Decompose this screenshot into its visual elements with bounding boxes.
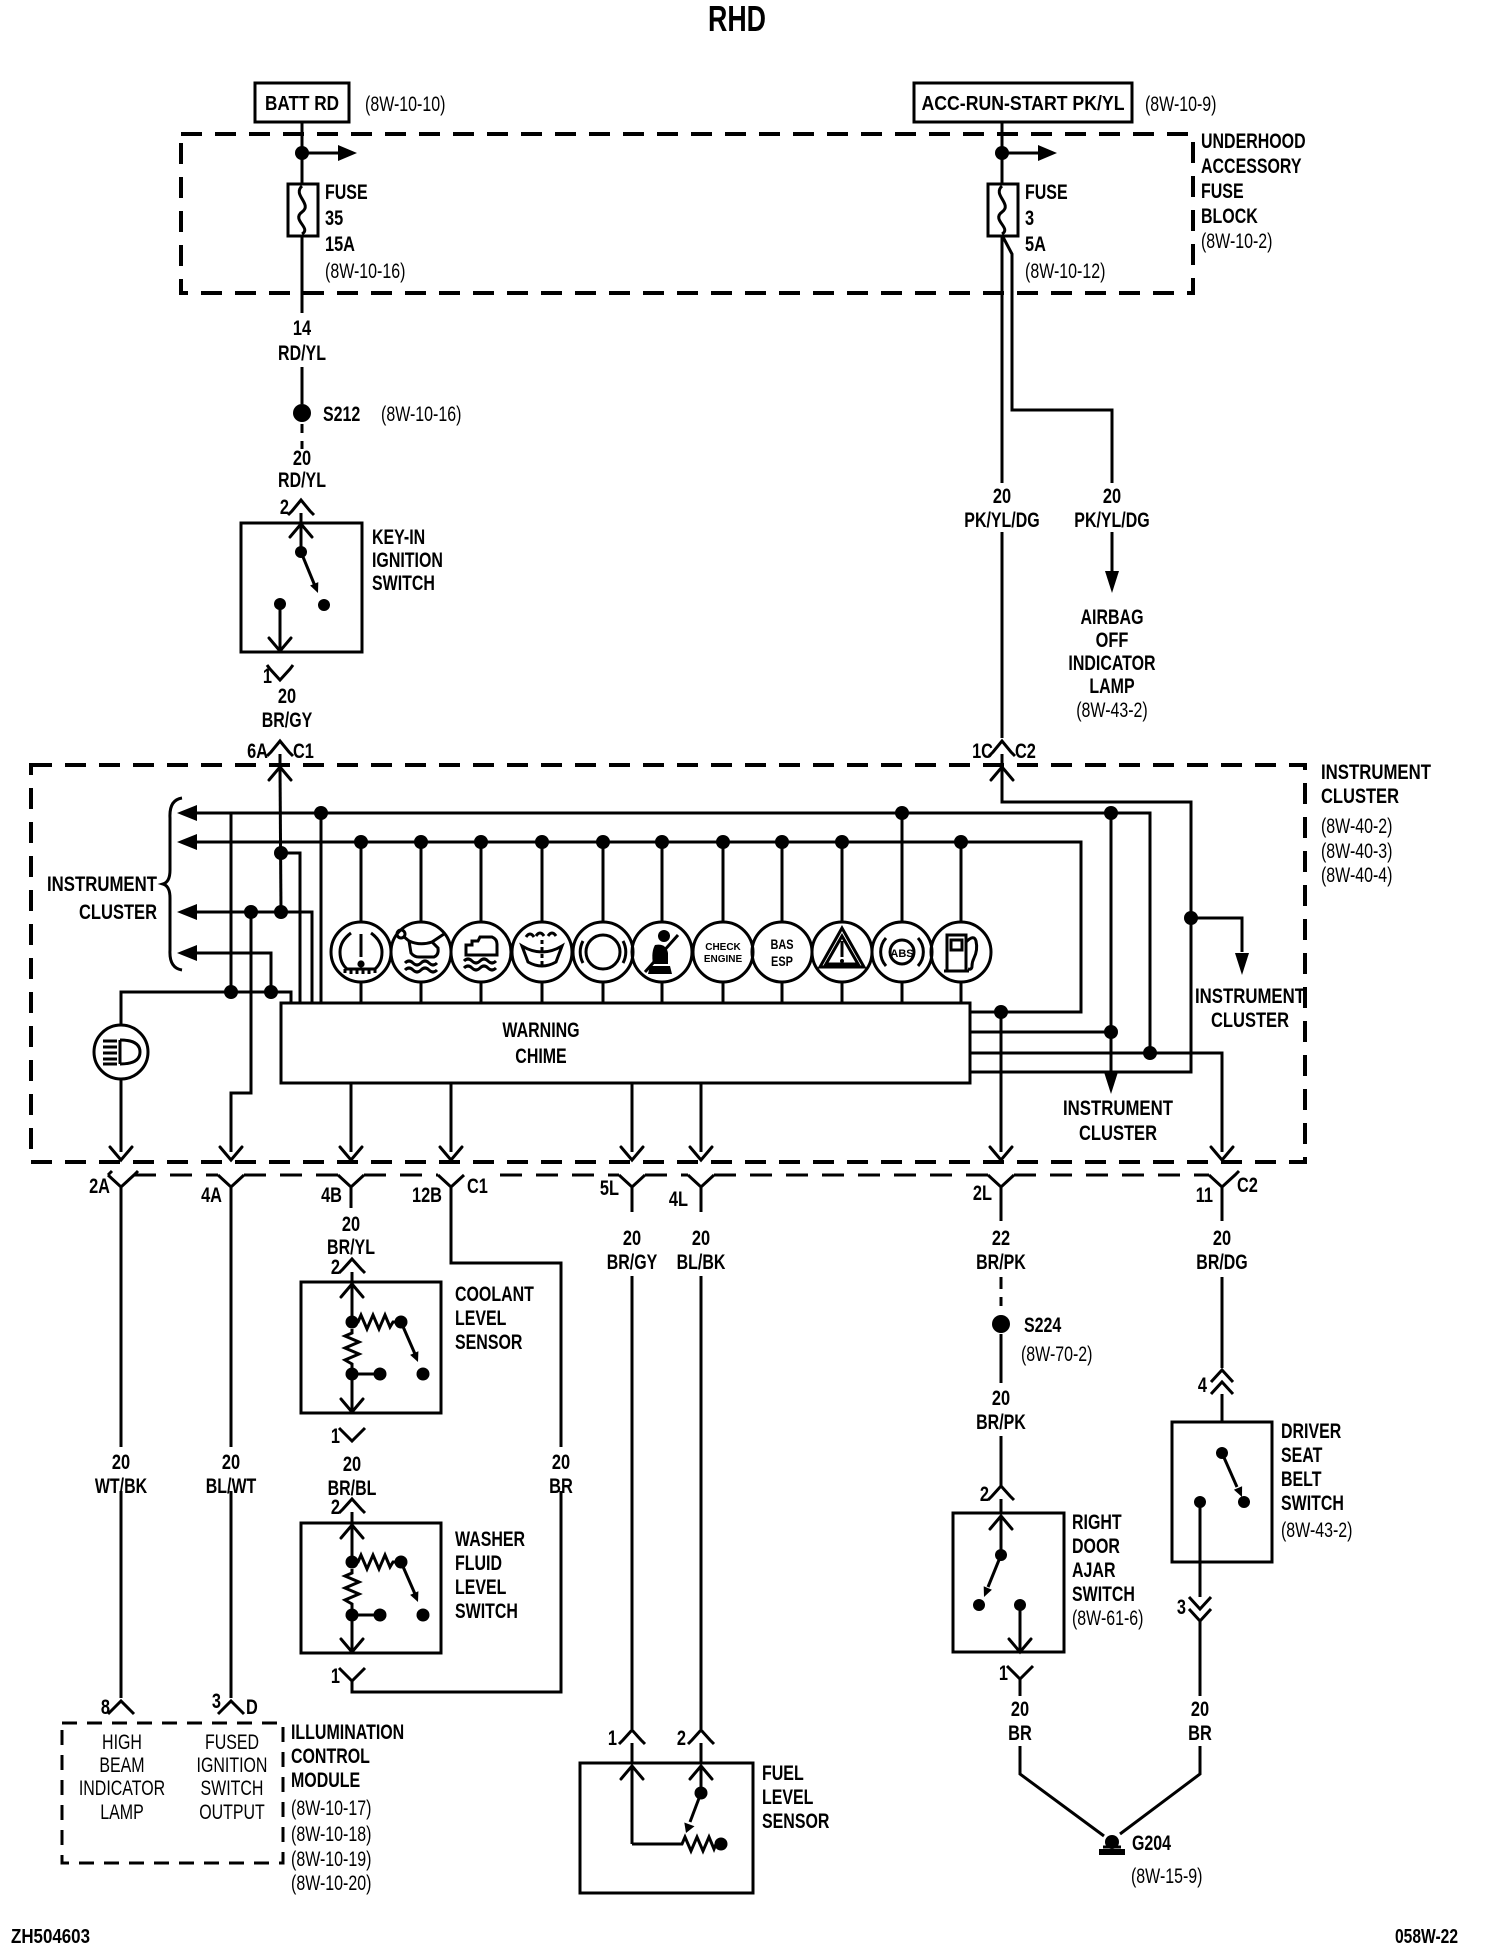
- node dots line 3: [244, 905, 258, 919]
- svg-text:(8W-40-4): (8W-40-4): [1321, 864, 1393, 887]
- svg-text:5L: 5L: [600, 1177, 619, 1200]
- high beam indicator icon: [94, 1025, 148, 1079]
- svg-text:ACCESSORY: ACCESSORY: [1201, 155, 1302, 178]
- coolant sensor internals: [341, 1284, 430, 1412]
- label S224 (8W-70-2): [1021, 1314, 1093, 1366]
- svg-text:S224: S224: [1024, 1314, 1062, 1337]
- svg-text:CHECK: CHECK: [705, 942, 741, 953]
- svg-text:20: 20: [992, 1387, 1010, 1410]
- wire branch arrow to instrument cluster (right): [1191, 918, 1249, 975]
- cluster pin line 4: [177, 945, 271, 992]
- wire vertical from line1 to headlamp feed: [230, 813, 233, 992]
- svg-text:15A: 15A: [325, 233, 355, 256]
- pin 2 fuel sensor: [677, 1727, 714, 1763]
- svg-text:FUEL: FUEL: [762, 1762, 804, 1785]
- svg-text:BATT RD: BATT RD: [265, 93, 339, 115]
- svg-text:5A: 5A: [1025, 233, 1046, 256]
- svg-text:8: 8: [101, 1696, 110, 1719]
- node dot on C2 path: [1184, 911, 1198, 925]
- svg-text:20: 20: [552, 1451, 570, 1474]
- indicator icon: BAS ESP: [752, 922, 812, 982]
- node dot C1 branch: [274, 846, 288, 860]
- svg-text:CHIME: CHIME: [515, 1045, 566, 1068]
- svg-text:FUSE: FUSE: [325, 181, 368, 204]
- svg-text:20: 20: [993, 485, 1011, 508]
- svg-text:PK/YL/DG: PK/YL/DG: [1074, 509, 1149, 532]
- svg-text:2: 2: [980, 1483, 989, 1506]
- svg-text:MODULE: MODULE: [291, 1769, 360, 1792]
- svg-text:INSTRUMENT: INSTRUMENT: [1063, 1097, 1173, 1120]
- wire chime to connector 4B: [340, 1083, 362, 1160]
- pin 1 washer switch: [331, 1665, 365, 1688]
- svg-text:LAMP: LAMP: [100, 1801, 144, 1824]
- svg-text:1: 1: [608, 1727, 617, 1750]
- svg-text:SENSOR: SENSOR: [455, 1331, 522, 1354]
- door ajar switch internals: [973, 1516, 1031, 1652]
- driver seat belt switch box: [1172, 1422, 1272, 1562]
- label 20 PK/YL/DG (left): [964, 485, 1039, 532]
- svg-text:4A: 4A: [201, 1184, 222, 1207]
- svg-text:BR: BR: [549, 1475, 573, 1498]
- inline connector 4 (chevrons up): [1198, 1370, 1233, 1422]
- svg-text:3: 3: [1025, 207, 1034, 230]
- svg-text:BR/DG: BR/DG: [1196, 1251, 1247, 1274]
- pin 3 / D connector: [212, 1690, 258, 1719]
- indicator icon: brake ring: [573, 922, 633, 982]
- indicator icon: coolant level: [451, 922, 511, 982]
- brace: [163, 798, 182, 970]
- svg-text:(8W-10-16): (8W-10-16): [325, 260, 405, 283]
- wires from icons into chime box: [361, 982, 961, 1003]
- node dot 2L tap: [994, 1005, 1008, 1019]
- net label ACC-RUN-START PK/YL: [914, 83, 1132, 122]
- svg-text:RD/YL: RD/YL: [278, 342, 326, 365]
- wire 2A column: [120, 1187, 123, 1698]
- connector bracket row below cluster: [108, 1171, 1239, 1187]
- svg-text:3: 3: [1177, 1596, 1186, 1619]
- svg-text:WARNING: WARNING: [502, 1019, 579, 1042]
- svg-text:INDICATOR: INDICATOR: [79, 1777, 165, 1800]
- wire internal cluster drop w/ arrow: [1104, 813, 1118, 1094]
- svg-text:1C: 1C: [972, 740, 993, 763]
- svg-text:1: 1: [999, 1662, 1008, 1685]
- wire washer output to BR net: [352, 1491, 561, 1692]
- svg-text:20: 20: [343, 1453, 361, 1476]
- label 20 BR/GY: [262, 685, 313, 732]
- wire fuse 35 output: [301, 236, 304, 313]
- label 20 WT/BK: [95, 1451, 147, 1498]
- wire into key-in switch: [300, 513, 303, 523]
- svg-text:AIRBAG: AIRBAG: [1081, 606, 1144, 629]
- label 20 BL/WT: [206, 1451, 257, 1498]
- wire 2L column: [1000, 1187, 1003, 1280]
- label WARNING CHIME: [502, 1019, 579, 1068]
- svg-text:20: 20: [623, 1227, 641, 1250]
- node junction on fuse 35 feed: [295, 146, 309, 160]
- connector 1C C2 at cluster: [972, 740, 1036, 763]
- pin 1 door ajar switch: [999, 1662, 1033, 1696]
- wire chime to connector 12B: [440, 1083, 462, 1160]
- svg-text:(8W-43-2): (8W-43-2): [1076, 699, 1148, 722]
- svg-text:BL/WT: BL/WT: [206, 1475, 257, 1498]
- svg-text:2L: 2L: [973, 1182, 992, 1205]
- indicator icon: check engine: [693, 922, 753, 982]
- label 14 RD/YL: [278, 317, 326, 365]
- svg-text:SEAT: SEAT: [1281, 1444, 1323, 1467]
- wire to splice: [301, 367, 304, 404]
- label HIGH BEAM INDICATOR LAMP: [79, 1731, 165, 1824]
- wire chime to connector 4L: [690, 1083, 712, 1160]
- svg-text:2: 2: [280, 496, 289, 519]
- washer fluid level switch box: [301, 1523, 441, 1653]
- fuel level sensor box: [580, 1763, 753, 1893]
- svg-text:S212: S212: [323, 403, 360, 426]
- svg-text:BR/PK: BR/PK: [976, 1251, 1026, 1274]
- svg-text:BEAM: BEAM: [99, 1754, 144, 1777]
- svg-text:3: 3: [212, 1690, 221, 1713]
- svg-text:(8W-10-2): (8W-10-2): [1201, 230, 1273, 253]
- label FUSE 35 15A (8W-10-16): [325, 181, 405, 283]
- svg-text:KEY-IN: KEY-IN: [372, 526, 425, 549]
- seat belt switch internals: [1194, 1447, 1250, 1597]
- wire from line3 down to connector 4A: [231, 912, 251, 1152]
- wire 11/C2 column: [1221, 1187, 1224, 1368]
- svg-text:G204: G204: [1132, 1832, 1171, 1855]
- svg-text:(8W-40-3): (8W-40-3): [1321, 840, 1393, 863]
- svg-text:ENGINE: ENGINE: [704, 954, 743, 965]
- wire from line1 dot down to chime: [320, 813, 323, 1003]
- svg-text:(8W-10-10): (8W-10-10): [365, 93, 445, 116]
- svg-text:UNDERHOOD: UNDERHOOD: [1201, 130, 1306, 153]
- label 20 BR (seat belt): [1188, 1698, 1212, 1745]
- chime output line C to connector 11: [970, 1053, 1233, 1160]
- svg-text:FLUID: FLUID: [455, 1552, 502, 1575]
- cluster pin line 2 (icon bus): [177, 834, 1081, 1012]
- label INSTRUMENT CLUSTER (right inside): [1195, 985, 1305, 1032]
- wire branch from C1 to chime: [281, 853, 300, 1003]
- pin 8 connector: [101, 1696, 134, 1719]
- svg-text:WASHER: WASHER: [455, 1528, 525, 1551]
- underhood accessory fuse block (dashed box): [181, 134, 1193, 293]
- wire headlamp to connector 2A: [110, 1079, 132, 1160]
- svg-text:4L: 4L: [669, 1188, 688, 1211]
- label S212 (8W-10-16): [323, 403, 461, 426]
- wire 2L drop: [990, 1012, 1012, 1160]
- svg-text:CLUSTER: CLUSTER: [1211, 1009, 1289, 1032]
- chime output line A: [970, 1011, 1081, 1014]
- svg-text:BLOCK: BLOCK: [1201, 205, 1258, 228]
- wire C1 entering cluster w/ arrow: [269, 754, 291, 780]
- svg-text:20: 20: [278, 685, 296, 708]
- key-in ignition switch box U1: [241, 523, 362, 652]
- svg-text:SWITCH: SWITCH: [372, 572, 435, 595]
- svg-text:LEVEL: LEVEL: [455, 1307, 507, 1330]
- svg-text:RD/YL: RD/YL: [278, 469, 326, 492]
- label FUEL LEVEL SENSOR: [762, 1762, 829, 1833]
- label UNDERHOOD ACCESSORY FUSE BLOCK: [1201, 130, 1306, 253]
- svg-text:LEVEL: LEVEL: [762, 1786, 814, 1809]
- svg-text:2: 2: [331, 1256, 340, 1279]
- label 20 BR: [549, 1451, 573, 1498]
- svg-text:BL/BK: BL/BK: [677, 1251, 726, 1274]
- pin 1 coolant sensor: [331, 1425, 365, 1448]
- label INSTRUMENT CLUSTER (8W-40-2/3/4) right outside: [1321, 761, 1431, 887]
- node junction on fuse 3 feed: [995, 146, 1009, 160]
- svg-text:20: 20: [692, 1227, 710, 1250]
- wire seat belt to ground: [1120, 1746, 1200, 1834]
- pin 2 coolant sensor: [331, 1256, 365, 1282]
- node dot line B: [1104, 1025, 1118, 1039]
- svg-text:C1: C1: [293, 740, 314, 763]
- svg-text:(8W-10-19): (8W-10-19): [291, 1848, 371, 1871]
- svg-text:4B: 4B: [321, 1184, 342, 1207]
- wire 5L column: [631, 1187, 634, 1729]
- svg-text:COOLANT: COOLANT: [455, 1283, 534, 1306]
- svg-text:SENSOR: SENSOR: [762, 1810, 829, 1833]
- svg-text:INSTRUMENT: INSTRUMENT: [1321, 761, 1431, 784]
- wire C2 path inside cluster: [970, 767, 1191, 1072]
- svg-text:2A: 2A: [89, 1175, 110, 1198]
- wire ACC feed into fuse block: [1001, 122, 1004, 184]
- svg-text:20: 20: [293, 447, 311, 470]
- wire arrow stub right of junction: [1002, 145, 1057, 161]
- svg-text:AJAR: AJAR: [1072, 1559, 1116, 1582]
- svg-text:RIGHT: RIGHT: [1072, 1511, 1122, 1534]
- svg-text:(8W-10-12): (8W-10-12): [1025, 260, 1105, 283]
- label FUSED IGNITION SWITCH OUTPUT: [197, 1731, 268, 1824]
- svg-text:ABS: ABS: [890, 948, 913, 960]
- svg-text:(8W-10-9): (8W-10-9): [1145, 93, 1217, 116]
- svg-text:SWITCH: SWITCH: [455, 1600, 518, 1623]
- chime output line B: [970, 1031, 1111, 1034]
- wire below S224: [1000, 1334, 1003, 1383]
- net label BATT RD: [255, 83, 349, 122]
- svg-text:BR: BR: [1008, 1722, 1032, 1745]
- label 20 RD/YL: [278, 447, 326, 492]
- label G204 (8W-15-9): [1131, 1832, 1203, 1888]
- label KEY-IN IGNITION SWITCH: [372, 526, 443, 595]
- svg-text:BELT: BELT: [1281, 1468, 1322, 1491]
- fuse F3: [988, 184, 1018, 236]
- washer switch internals: [341, 1525, 430, 1652]
- wire taps from bus to icons: [361, 813, 961, 922]
- svg-text:ESP: ESP: [771, 953, 793, 969]
- svg-text:20: 20: [222, 1451, 240, 1474]
- indicator icon: brake/tire warning: [331, 922, 391, 982]
- svg-text:ILLUMINATION: ILLUMINATION: [291, 1721, 404, 1744]
- svg-text:(8W-43-2): (8W-43-2): [1281, 1519, 1353, 1542]
- wire C1 inside cluster: [280, 767, 281, 912]
- wire headlamp top to chime row: [121, 992, 291, 1025]
- indicator icon: ABS: [872, 922, 932, 982]
- label INSTRUMENT CLUSTER left inside: [47, 873, 157, 924]
- node dots on headlamp row: [224, 985, 238, 999]
- svg-text:20: 20: [112, 1451, 130, 1474]
- indicator icon: fuel: [931, 922, 991, 982]
- svg-text:C1: C1: [467, 1175, 488, 1198]
- label WASHER FLUID LEVEL SWITCH: [455, 1528, 525, 1623]
- svg-text:(8W-10-16): (8W-10-16): [381, 403, 461, 426]
- svg-text:DOOR: DOOR: [1072, 1535, 1120, 1558]
- svg-text:RHD: RHD: [708, 0, 766, 39]
- svg-text:(8W-15-9): (8W-15-9): [1131, 1865, 1203, 1888]
- pin 2 connector of key-in switch: [280, 496, 314, 519]
- high beam / fused ignition dashed box: [62, 1723, 283, 1863]
- svg-text:WT/BK: WT/BK: [95, 1475, 147, 1498]
- instrument cluster (dashed box): [31, 765, 1305, 1162]
- indicator icon: warning triangle: [812, 922, 872, 982]
- svg-text:SWITCH: SWITCH: [1072, 1583, 1135, 1606]
- label 20 BR/PK: [976, 1387, 1026, 1434]
- wire to door ajar switch: [1000, 1436, 1003, 1486]
- svg-text:(8W-70-2): (8W-70-2): [1021, 1343, 1093, 1366]
- svg-text:HIGH: HIGH: [102, 1731, 142, 1754]
- svg-text:BR/GY: BR/GY: [607, 1251, 658, 1274]
- node dots line 2 icon taps: [354, 835, 968, 849]
- svg-text:IGNITION: IGNITION: [197, 1754, 268, 1777]
- svg-text:CLUSTER: CLUSTER: [79, 901, 157, 924]
- svg-text:BR/GY: BR/GY: [262, 709, 313, 732]
- inline connector 3 (chevrons down): [1177, 1596, 1211, 1696]
- svg-text:058W-22: 058W-22: [1395, 1926, 1458, 1948]
- svg-text:C2: C2: [1237, 1174, 1258, 1197]
- node dots line 1: [314, 806, 328, 820]
- wire BATT RD into fuse block: [301, 122, 304, 184]
- wire 4A column: [230, 1187, 233, 1698]
- fuel sensor internals: [621, 1766, 728, 1851]
- svg-text:20: 20: [1011, 1698, 1029, 1721]
- svg-text:ACC-RUN-START PK/YL: ACC-RUN-START PK/YL: [922, 93, 1125, 115]
- wire dashed below splice: [301, 424, 304, 449]
- pin 1 fuel sensor: [608, 1727, 645, 1763]
- svg-text:(8W-10-20): (8W-10-20): [291, 1872, 371, 1895]
- svg-text:LAMP: LAMP: [1089, 675, 1134, 698]
- svg-text:SWITCH: SWITCH: [201, 1777, 264, 1800]
- coolant level sensor box: [301, 1282, 441, 1413]
- svg-text:CLUSTER: CLUSTER: [1079, 1122, 1157, 1145]
- svg-text:FUSED: FUSED: [205, 1731, 259, 1754]
- label DRIVER SEAT BELT SWITCH: [1281, 1420, 1353, 1542]
- svg-text:DRIVER: DRIVER: [1281, 1420, 1341, 1443]
- splice S212: [293, 404, 311, 422]
- label INSTRUMENT CLUSTER (bottom middle): [1063, 1097, 1173, 1145]
- warning chime box: [281, 1003, 970, 1083]
- svg-text:CLUSTER: CLUSTER: [1321, 785, 1399, 808]
- wire arrow stub right of junction: [302, 145, 357, 161]
- label 20 BR/DG: [1196, 1227, 1247, 1274]
- cluster pin line 3: [177, 904, 312, 1003]
- svg-text:IGNITION: IGNITION: [372, 549, 443, 572]
- right door ajar switch box: [953, 1513, 1064, 1652]
- indicator icon: seat belt: [632, 922, 692, 982]
- svg-text:BAS: BAS: [770, 936, 793, 952]
- svg-text:INDICATOR: INDICATOR: [1068, 652, 1155, 675]
- label FUSE 3 5A (8W-10-12): [1025, 181, 1105, 283]
- wire dashed above S224: [1000, 1280, 1003, 1313]
- pin 1 connector below key-in switch: [263, 665, 293, 688]
- svg-text:C2: C2: [1015, 740, 1036, 763]
- svg-text:35: 35: [325, 207, 343, 230]
- svg-text:20: 20: [1191, 1698, 1209, 1721]
- cluster pin line 1 (top bus): [177, 805, 1150, 1053]
- svg-text:PK/YL/DG: PK/YL/DG: [964, 509, 1039, 532]
- wire fuse 3 output right branch: [1003, 237, 1119, 593]
- svg-text:4: 4: [1198, 1374, 1207, 1397]
- wire 4B column: [350, 1187, 353, 1208]
- wire C2 entering cluster w/ arrow: [991, 754, 1013, 780]
- svg-text:(8W-10-17): (8W-10-17): [291, 1797, 371, 1820]
- svg-text:(8W-40-2): (8W-40-2): [1321, 815, 1393, 838]
- svg-text:OUTPUT: OUTPUT: [199, 1801, 265, 1824]
- svg-text:(8W-61-6): (8W-61-6): [1072, 1607, 1144, 1630]
- pin 2 washer switch: [331, 1496, 365, 1523]
- pin 2 door ajar switch: [980, 1483, 1014, 1513]
- svg-text:FUSE: FUSE: [1025, 181, 1068, 204]
- label AIRBAG OFF INDICATOR LAMP: [1068, 606, 1155, 722]
- label COOLANT LEVEL SENSOR: [455, 1283, 534, 1354]
- svg-text:LEVEL: LEVEL: [455, 1576, 507, 1599]
- svg-text:20: 20: [1103, 485, 1121, 508]
- label 22 BR/PK: [976, 1227, 1026, 1274]
- svg-text:11: 11: [1196, 1184, 1214, 1207]
- svg-text:14: 14: [293, 317, 311, 340]
- svg-text:CONTROL: CONTROL: [291, 1745, 370, 1768]
- svg-text:SWITCH: SWITCH: [1281, 1492, 1344, 1515]
- wire door ajar to ground: [1020, 1746, 1104, 1836]
- svg-text:22: 22: [992, 1227, 1010, 1250]
- fuse F35: [288, 184, 318, 236]
- label 20 BR/GY: [607, 1227, 658, 1274]
- svg-text:INSTRUMENT: INSTRUMENT: [47, 873, 157, 896]
- label 20 BR/YL: [327, 1213, 375, 1259]
- svg-text:6A: 6A: [247, 740, 268, 763]
- wire 4L column: [700, 1187, 703, 1729]
- splice S224: [992, 1315, 1010, 1333]
- svg-text:FUSE: FUSE: [1201, 180, 1244, 203]
- ground G204: [1099, 1835, 1125, 1855]
- svg-text:20: 20: [1213, 1227, 1231, 1250]
- label 20 PK/YL/DG (right): [1074, 485, 1149, 532]
- label 20 BR (door ajar): [1008, 1698, 1032, 1745]
- label 20 BR/BL: [328, 1453, 377, 1500]
- indicator icon: washer fluid: [512, 922, 572, 982]
- svg-text:12B: 12B: [412, 1184, 442, 1207]
- wire BR net upper segment to 12B: [451, 1187, 561, 1447]
- svg-text:BR: BR: [1188, 1722, 1212, 1745]
- wire chime to connector 5L: [621, 1083, 643, 1160]
- key-in switch internals: [269, 524, 330, 651]
- svg-text:ZH504603: ZH504603: [11, 1926, 90, 1948]
- label ILLUMINATION CONTROL MODULE: [291, 1721, 404, 1895]
- svg-text:D: D: [246, 1696, 258, 1719]
- svg-text:BR/PK: BR/PK: [976, 1411, 1026, 1434]
- svg-text:OFF: OFF: [1096, 629, 1129, 652]
- label 20 BL/BK: [677, 1227, 726, 1274]
- svg-text:INSTRUMENT: INSTRUMENT: [1195, 985, 1305, 1008]
- svg-text:2: 2: [677, 1727, 686, 1750]
- indicator icon: oil level: [391, 922, 451, 982]
- svg-text:(8W-10-18): (8W-10-18): [291, 1823, 371, 1846]
- wire fuse 3 output left branch: [1001, 236, 1004, 738]
- label RIGHT DOOR AJAR SWITCH: [1072, 1511, 1144, 1630]
- svg-text:2: 2: [331, 1496, 340, 1519]
- connector 6A C1 at cluster: [247, 740, 314, 763]
- svg-text:20: 20: [342, 1213, 360, 1236]
